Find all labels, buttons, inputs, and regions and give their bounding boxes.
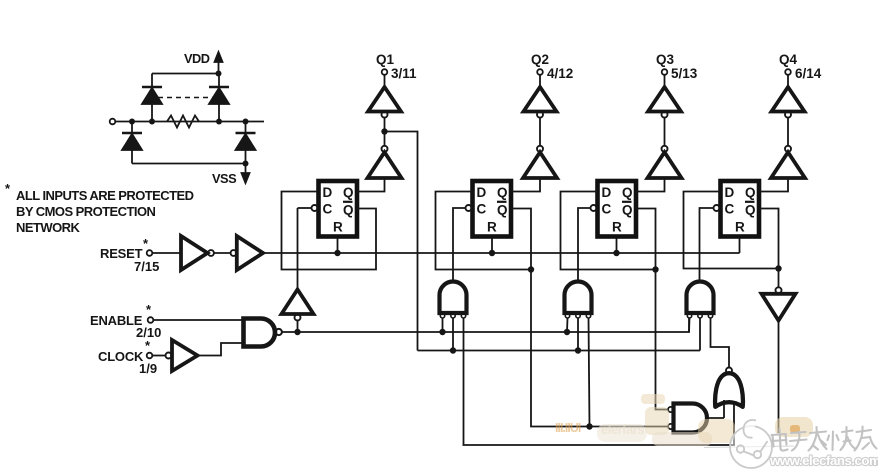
svg-text:5/13: 5/13 xyxy=(671,66,698,81)
svg-text:VDD: VDD xyxy=(184,51,210,66)
svg-text:*: * xyxy=(145,338,151,353)
dian xyxy=(772,429,788,451)
node: bottom rail junction xyxy=(243,161,249,167)
svg-text:3/11: 3/11 xyxy=(391,66,417,81)
svg-text:D: D xyxy=(725,185,735,200)
shao xyxy=(828,427,856,450)
FF3 C input bubble xyxy=(591,205,597,211)
svg-text:*: * xyxy=(5,181,11,196)
protection network: input terminal xyxy=(110,119,116,125)
buffer U1 (reset inverter 1) xyxy=(181,236,214,270)
AND gate A4 (horizontal, decode) xyxy=(668,400,724,433)
Q1 output terminal xyxy=(376,52,417,81)
svg-text:7/15: 7/15 xyxy=(134,259,159,274)
svg-text:Q: Q xyxy=(343,203,354,218)
wire FF4 Q to inverter xyxy=(760,178,789,192)
RESET input terminal xyxy=(100,236,159,274)
svg-text:Q: Q xyxy=(497,203,508,218)
svg-text:CLOCK: CLOCK xyxy=(98,349,144,364)
svg-text:R: R xyxy=(612,220,622,235)
flip-flop FF4 xyxy=(721,181,760,237)
node: top rail junction xyxy=(216,71,222,77)
svg-text:C: C xyxy=(725,202,735,217)
svg-text:Q1: Q1 xyxy=(376,52,395,67)
svg-text:III.IIUI: III.IIUI xyxy=(555,421,581,435)
diode D2 (right, to VDD) xyxy=(209,74,229,122)
Q3 output terminal xyxy=(656,52,698,81)
svg-text:C: C xyxy=(477,202,487,217)
svg-text:1/9: 1/9 xyxy=(139,361,157,376)
wire FF1 R stub xyxy=(337,239,339,254)
wire FF2 R stub xyxy=(491,239,493,254)
svg-text:Q: Q xyxy=(497,185,508,200)
AND gate A2 (stage3 clock) xyxy=(565,282,592,318)
svg-text:Q: Q xyxy=(745,185,756,200)
svg-text:C: C xyxy=(323,202,333,217)
svg-text:Q: Q xyxy=(622,185,633,200)
wire: stage1 internal line (y=350.5) xyxy=(418,350,701,352)
inverter U6 (stage1 first) xyxy=(368,118,402,178)
FF1 C input bubble xyxy=(312,205,318,211)
ENABLE input terminal xyxy=(90,302,161,340)
VDD arrow xyxy=(215,52,223,74)
AND gate A3 (stage4 clock) xyxy=(687,282,714,318)
wire FF2 C from AND1 xyxy=(453,208,466,281)
wire: VDD top rail xyxy=(152,73,219,75)
svg-text:D: D xyxy=(477,185,487,200)
flip-flop FF3 xyxy=(598,181,637,237)
svg-text:D: D xyxy=(602,185,612,200)
wire FF3 Qbar down to AND-H top input xyxy=(656,270,668,410)
svg-text:Q2: Q2 xyxy=(531,52,549,67)
diode D1 (left, to VDD) xyxy=(142,74,162,122)
wire FF4 R stub xyxy=(739,239,741,254)
inverter U12 (stage4 first) xyxy=(771,118,805,178)
wire: input middle horizontal xyxy=(116,121,265,123)
svg-text:*: * xyxy=(146,302,152,317)
watermark: chinese characters xyxy=(772,427,877,451)
inverter U14 (Qbar4 down) xyxy=(762,269,796,434)
wire stage1 internal feedback xyxy=(385,132,418,351)
wire: bottom line (y=445) xyxy=(463,402,735,445)
node: FF4 feedback junction xyxy=(775,265,781,271)
inverter U10 (stage3 first) xyxy=(648,118,682,178)
node: wire-junction dots on middle wire xyxy=(129,119,249,125)
flip-flop FF2 xyxy=(473,181,512,237)
svg-text:NETWORK: NETWORK xyxy=(16,220,80,235)
wire FF2 D feedback loop xyxy=(436,192,532,270)
svg-text:R: R xyxy=(333,220,343,235)
wire FF4 C from AND3 xyxy=(700,208,714,281)
wire A3 input stubs xyxy=(689,318,729,368)
wire: VSS bottom rail xyxy=(132,163,246,165)
node: internal line dots xyxy=(450,347,581,353)
wire FF2 Qbar down to AND-H xyxy=(531,270,668,427)
svg-text:Q4: Q4 xyxy=(779,52,798,67)
wire between reset buffers xyxy=(214,252,231,254)
wire A1 input stubs xyxy=(443,318,464,445)
inverter U5 (clock to FF1) xyxy=(282,208,314,332)
wire: RESET line to all R inputs xyxy=(263,252,740,254)
svg-text:C: C xyxy=(602,202,612,217)
wire clock to buffer xyxy=(153,355,166,357)
node: FF3 feedback junction xyxy=(652,266,658,272)
dashed link between D1 and D2 xyxy=(158,97,213,99)
svg-text:Q3: Q3 xyxy=(656,52,675,67)
svg-text:4/12: 4/12 xyxy=(547,66,573,81)
wire reset to buffer xyxy=(153,252,182,254)
svg-text:ENABLE: ENABLE xyxy=(90,313,143,328)
node: FF2 feedback junction xyxy=(528,266,534,272)
Q2 output terminal xyxy=(531,52,573,81)
wire A2 input stubs xyxy=(567,318,590,427)
wire clock buffer to NAND xyxy=(198,343,244,356)
wire: clock line xyxy=(282,318,689,332)
AND gate A1 (stage2 clock) xyxy=(440,282,467,318)
flip-flop FF1 xyxy=(319,181,358,237)
CLOCK input terminal xyxy=(98,338,157,376)
FF2 C input bubble xyxy=(466,205,472,211)
watermark: orange text fragments xyxy=(555,421,644,437)
resistor R (zigzag) xyxy=(167,116,199,128)
svg-text:D: D xyxy=(323,185,333,200)
wire FF2 Q to inverter xyxy=(512,178,541,192)
svg-text:www.elecfans.com: www.elecfans.com xyxy=(769,453,878,468)
node: lower line dot xyxy=(586,423,592,429)
buffer U13 (Q4 output) xyxy=(772,75,805,118)
wire FF1 D feedback loop xyxy=(282,192,377,270)
wire FF3 C from AND2 xyxy=(578,208,591,281)
zi xyxy=(790,432,807,451)
svg-text:VSS: VSS xyxy=(212,171,237,186)
svg-text:BY CMOS PROTECTION: BY CMOS PROTECTION xyxy=(16,204,156,219)
NOR gate U15 (vertical) xyxy=(715,368,743,407)
svg-text:Q: Q xyxy=(745,203,756,218)
note: all inputs protected xyxy=(5,181,194,235)
svg-text:*: * xyxy=(143,236,149,251)
svg-text:R: R xyxy=(735,220,745,235)
watermark: elecfans camera logo xyxy=(704,420,794,468)
buffer U2 (reset inverter 2) xyxy=(231,236,263,270)
svg-text:ALL INPUTS ARE PROTECTED: ALL INPUTS ARE PROTECTED xyxy=(16,188,194,203)
node: clock line dots xyxy=(294,329,570,335)
watermark: beige patches xyxy=(597,394,813,446)
diode D4 (right, from VSS) xyxy=(236,122,256,164)
wire enable to NAND xyxy=(154,319,244,321)
buffer U3 (clock input) xyxy=(166,340,198,371)
svg-text:6/14: 6/14 xyxy=(795,66,822,81)
buffer U7 (Q1 output) xyxy=(368,75,401,118)
FF4 C input bubble xyxy=(714,205,720,211)
fa xyxy=(809,427,827,451)
node: reset junction dots xyxy=(334,250,619,256)
svg-text:Q: Q xyxy=(622,203,633,218)
wire FF3 Q to inverter xyxy=(637,178,665,192)
Q4 output terminal xyxy=(779,52,822,81)
buffer U11 (Q3 output) xyxy=(648,75,681,118)
NAND gate U4 (clock/enable) xyxy=(244,319,282,347)
wire FF3 R stub xyxy=(616,239,618,254)
diode D3 (left, from VSS) xyxy=(122,122,142,164)
VSS arrow xyxy=(242,164,250,184)
you xyxy=(855,427,877,451)
wire FF1 Q to inverter xyxy=(357,178,385,192)
wire FF3 D feedback loop xyxy=(561,192,656,270)
inverter U8 (stage2 first) xyxy=(523,118,557,178)
buffer U9 (Q2 output) xyxy=(524,75,557,118)
svg-text:R: R xyxy=(487,220,497,235)
wire FF4 D feedback loop xyxy=(684,192,779,269)
svg-text:Q: Q xyxy=(343,185,354,200)
node: stage1 internal junction xyxy=(381,128,387,134)
